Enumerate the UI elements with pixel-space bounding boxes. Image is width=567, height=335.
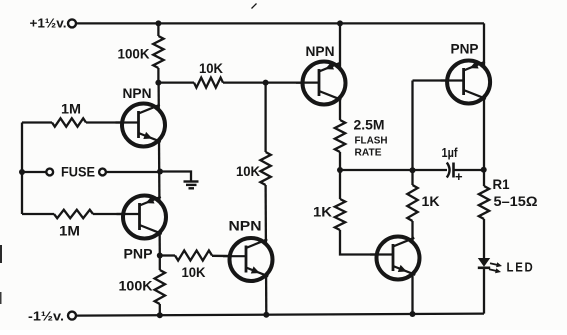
svg-text:2.5M: 2.5M <box>354 117 385 133</box>
svg-text:FUSE: FUSE <box>61 165 95 180</box>
svg-text:-1½v.: -1½v. <box>28 309 64 324</box>
resistor 1K (left of bottom-right NPN) <box>335 199 345 230</box>
node: bottom rail / bottom-right NPN emitter <box>410 311 416 317</box>
node: top rail / top-middle NPN collector <box>337 20 343 26</box>
resistor 10K (top) <box>194 78 223 88</box>
wire: flash node horizontal run to capacitor <box>340 169 447 171</box>
wire: middle column below 10K through NPN to rail <box>264 185 267 315</box>
svg-text:1K: 1K <box>422 193 440 209</box>
wire: top-right corner down to PNP emitter and on to cap junction <box>483 23 485 169</box>
wire: 100K to node under it <box>157 68 159 83</box>
transistor Q5 PNP (top right) <box>447 61 490 104</box>
node: bottom rail / bottom-middle NPN emitter <box>263 312 269 318</box>
wire: fuse left lead <box>22 171 47 173</box>
resistor 10K (middle vertical) <box>260 152 270 185</box>
wire: left 1K to base of bottom-right NPN <box>340 230 393 255</box>
svg-text:R1: R1 <box>493 176 510 192</box>
terminal -1.5V <box>68 312 76 320</box>
transistor Q2 PNP (lower left) <box>123 196 166 239</box>
svg-text:100K: 100K <box>119 278 153 294</box>
svg-text:1M: 1M <box>61 101 81 117</box>
node: flash rate / cap run / 1K <box>337 167 343 173</box>
wire: top-middle NPN emitter to 2.5M and node <box>339 152 341 170</box>
resistor 10K (bottom) <box>175 251 212 261</box>
scan mark left edge lower <box>0 292 2 304</box>
resistor R1 5-15 ohm <box>479 186 489 219</box>
svg-text:FLASH: FLASH <box>355 135 388 147</box>
svg-text:LED: LED <box>507 260 535 275</box>
transistor Q6 NPN (bottom right) <box>377 237 420 280</box>
transistor Q4 NPN (bottom middle) <box>230 238 273 281</box>
transistor Q1 NPN (upper left) <box>122 104 165 147</box>
wire: middle column 10K vertical feed <box>264 83 266 152</box>
wire: top 1M leads <box>22 121 52 123</box>
resistor 2.5M flash rate <box>335 120 345 152</box>
wire: right column R1/LED bottom corner <box>483 170 485 186</box>
wire: bottom 1M leads <box>22 213 54 215</box>
terminal +1.5V <box>68 19 76 27</box>
resistor 100K (top left) <box>153 36 163 68</box>
wire: flash node down to left 1K <box>339 170 341 199</box>
wire: fuse right lead to left column <box>106 171 160 173</box>
resistor 1K (right) <box>407 185 417 221</box>
node: fuse loop left <box>19 169 25 175</box>
svg-text:PNP: PNP <box>124 246 153 262</box>
svg-text:1K: 1K <box>313 204 332 220</box>
wire: 10K node to middle column <box>158 81 194 83</box>
wire: bottom 10K to base of bottom-middle NPN <box>212 255 247 258</box>
wire: ground stub <box>160 172 191 182</box>
LED D1 <box>478 258 490 267</box>
wire: top-middle NPN collector to rail <box>339 23 341 120</box>
fuse F1 <box>46 169 53 176</box>
svg-text:10K: 10K <box>236 163 260 179</box>
capacitor C1 1uF <box>447 163 450 178</box>
wire: left column top rail to 100K <box>157 23 159 36</box>
wire: left column to bottom 10K <box>160 254 175 256</box>
node: left column / 10K bottom / 100K bottom <box>157 253 163 259</box>
node: cap / right column <box>481 167 487 173</box>
wire: -1.5V bottom rail <box>76 314 484 316</box>
node: 100K / 10K / NPN collector <box>155 80 161 86</box>
scan mark left edge upper <box>0 245 2 263</box>
svg-text:NPN: NPN <box>306 43 335 59</box>
node: left column / fuse / ground <box>157 169 163 175</box>
scan mark top <box>252 4 257 9</box>
svg-text:5–15Ω: 5–15Ω <box>494 193 538 209</box>
svg-text:+: + <box>455 169 463 184</box>
svg-text:100K: 100K <box>118 46 150 62</box>
wire: left column through NPN and PNP transistors <box>159 83 160 256</box>
svg-text:+1½v.: +1½v. <box>30 16 67 31</box>
svg-text:10K: 10K <box>199 60 223 76</box>
wire: lower-left column into bottom 100K and to rail <box>159 256 161 271</box>
svg-text:NPN: NPN <box>229 218 262 234</box>
node: PNP base column / cap run <box>410 167 416 173</box>
node: bottom rail / 100K bottom <box>157 312 163 318</box>
node: 10K / middle column <box>263 80 269 86</box>
wire: PNP base corner down to cap node <box>411 81 413 186</box>
svg-text:RATE: RATE <box>355 147 382 159</box>
wire: capacitor to right column junction <box>454 169 485 171</box>
wire: right 1K down through bottom-right NPN to rail <box>411 221 413 314</box>
resistor 100K (bottom left) <box>155 270 165 304</box>
wire: PNP base horizontal <box>413 79 465 81</box>
svg-text:1µf: 1µf <box>442 145 459 160</box>
svg-text:NPN: NPN <box>123 85 152 101</box>
svg-text:10K: 10K <box>182 264 206 280</box>
node: top rail / 100K <box>155 20 161 26</box>
resistor 1M (upper) <box>52 118 86 126</box>
wire: far-left loop vertical <box>21 123 23 215</box>
svg-text:PNP: PNP <box>451 41 479 57</box>
wire: +1.5V top rail <box>76 22 484 24</box>
transistor Q3 NPN (top middle) <box>303 62 346 105</box>
svg-text:1M: 1M <box>59 223 80 239</box>
resistor 1M (lower) <box>54 210 93 218</box>
ground <box>184 180 199 182</box>
